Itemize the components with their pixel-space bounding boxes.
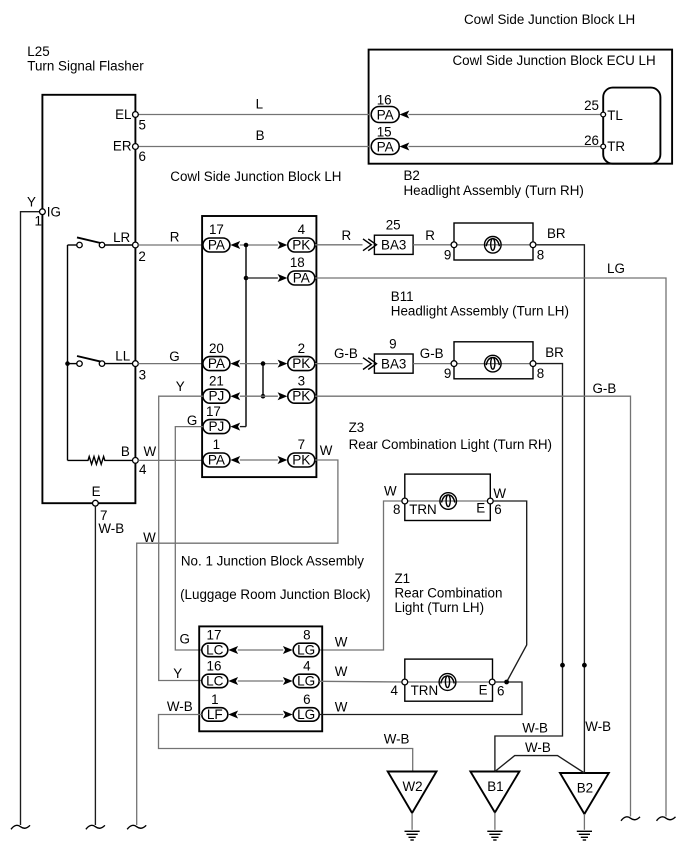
arrowhead into PK2 [278,360,288,368]
svg-text:Z1: Z1 [395,571,411,586]
svg-text:E: E [479,682,488,697]
svg-text:6: 6 [497,683,504,698]
svg-text:Y: Y [176,379,185,394]
svg-text:W: W [384,484,397,499]
arrowhead into PK3 [278,392,288,400]
arrowhead into LG8 [283,646,293,654]
svg-text:LL: LL [115,348,130,363]
wire PA17-PK4 internal [240,244,278,246]
arrowhead into PA18 [278,274,288,282]
svg-text:4: 4 [391,683,399,698]
connector PA pin 17 [203,222,230,252]
svg-text:Rear Combination: Rear Combination [395,586,503,601]
svg-text:Light (Turn LH): Light (Turn LH) [395,600,485,615]
svg-text:26: 26 [584,133,599,148]
wire G (LL to PA20) [138,349,203,364]
ground triangle B2 [560,773,609,814]
node TL pin 25 [584,98,623,123]
svg-text:4: 4 [298,222,306,237]
svg-text:B: B [121,444,130,459]
node J4 (row21 branch) [261,394,266,399]
connector LC pin 16 [202,659,228,689]
wire W (Z3 E to Z1 junction) [493,501,527,682]
connector PK pin 4 [288,222,315,252]
svg-text:W-B: W-B [98,521,124,536]
svg-text:15: 15 [377,124,392,139]
connector PK pin 7 [288,437,315,467]
svg-text:TRN: TRN [411,683,439,698]
squiggle G-B wire end [621,817,640,821]
wire R (BA3 to bulb B2) [413,228,454,245]
svg-text:B11: B11 [391,289,414,304]
svg-text:TRN: TRN [409,502,437,517]
svg-text:E: E [476,501,485,516]
svg-text:25: 25 [584,98,599,113]
node splice on BR/W-B (B2) [582,663,587,668]
wire across lamp Z3 [405,500,491,502]
svg-text:IG: IG [47,205,61,220]
svg-text:B2: B2 [404,168,420,183]
wire W (LG8 to Z3 TRN 8) [319,484,405,650]
bulb Z3 TRN [440,493,457,510]
svg-text:W: W [493,486,506,501]
svg-text:W: W [143,530,156,545]
svg-text:W-B: W-B [525,740,551,755]
svg-text:3: 3 [139,367,146,382]
svg-text:PA: PA [208,238,226,253]
svg-text:Cowl Side Junction Block LH: Cowl Side Junction Block LH [170,169,341,184]
lamp housing Z3 TRN [405,474,491,520]
node bulb B11 pin 8 [530,361,544,382]
node chain-LL junction [65,361,70,366]
wire PA20-PK2 internal [240,363,278,365]
svg-text:PA: PA [208,453,226,468]
wire LG (PA18 to off-page) [315,261,666,816]
squiggle E wire end [86,825,105,829]
svg-text:5: 5 [139,118,146,133]
No.1 junction block box [199,626,322,731]
svg-text:ER: ER [113,139,132,154]
svg-text:4: 4 [303,659,311,674]
svg-text:Headlight Assembly (Turn RH): Headlight Assembly (Turn RH) [404,183,584,198]
svg-text:18: 18 [290,255,305,270]
svg-text:PK: PK [292,453,310,468]
node EL pin 5 [115,107,146,132]
connector LC pin 17 [202,628,228,658]
bulb B11 (turn LH) [485,355,502,372]
arrowhead into PK4 [278,241,288,249]
svg-text:LC: LC [206,673,224,688]
wire TR (ECU pin 26 to PA15) [409,146,601,148]
svg-text:PA: PA [377,107,395,122]
node splice Z1 E junction [504,680,509,685]
svg-text:W: W [144,444,157,459]
arrowhead into PJ17 [230,423,240,431]
wire L (EL to PA16) [135,97,371,115]
svg-text:LF: LF [207,707,223,722]
svg-text:Y: Y [27,194,36,209]
bulb B2 (turn RH) [485,237,502,254]
wire E W-B (to off-page) [94,506,96,825]
junction block LH box [202,216,316,477]
arrowhead into PJ21 [230,392,240,400]
svg-text:B1: B1 [487,779,503,794]
wire W-B bridge (B1 to B2) [495,756,585,773]
svg-text:17: 17 [209,222,224,237]
arrowhead into PK7 [278,456,288,464]
connector PK pin 2 [288,341,315,371]
node bulb B2 pin 8 [530,242,544,262]
wire PA1-PK7 internal [240,459,278,461]
svg-text:W: W [335,664,348,679]
svg-text:25: 25 [386,218,401,233]
wire G-B (BA3 to bulb B11) [413,346,454,364]
svg-text:BA3: BA3 [381,356,406,371]
svg-text:BR: BR [545,345,564,360]
node J3 (row20 branch) [261,361,266,366]
svg-text:L: L [256,97,263,112]
ground symbol under B1 [487,813,502,841]
arrowhead into LG6 [283,711,293,719]
svg-text:B: B [256,128,265,143]
svg-text:8: 8 [393,502,400,517]
wire G-B (PK2 to BA3 B11) [315,346,363,364]
svg-text:BA3: BA3 [381,238,406,253]
connector LF pin 1 [202,692,228,722]
svg-text:B2: B2 [577,780,593,795]
svg-text:R: R [425,228,435,243]
node TR pin 26 [584,133,625,154]
wire PJ21-PK3 internal [240,395,278,397]
svg-text:TL: TL [607,108,623,123]
connector LG pin 8 [293,628,319,658]
wire G (PJ17 to LC17) [175,413,203,650]
arrowhead into LC16 [228,677,238,685]
svg-text:W-B: W-B [167,699,193,714]
node J2 (row18 branch) [244,276,249,281]
svg-text:3: 3 [298,373,305,388]
svg-text:1: 1 [35,214,42,229]
node Z1 TRN pin 4 [391,679,439,698]
svg-text:R: R [342,228,352,243]
svg-text:G-B: G-B [593,381,617,396]
ECU box: Cowl Side Junction Block ECU LH [369,50,672,164]
node Z3 TRN pin 8 [393,498,437,517]
squiggle LG wire end [657,817,676,821]
wire BR (B2 bulb to ground B2) [536,226,585,772]
svg-text:PJ: PJ [208,389,224,404]
arrowhead into PA17 [230,241,240,249]
arrowhead into LG4 [283,677,293,685]
connector arrows BA3 (B11) [363,358,377,370]
label No. 1 Junction Block Assembly [180,554,371,602]
wire W (B to PA1) [138,444,203,461]
lamp housing B2 [454,223,533,260]
label L25 Turn Signal Flasher [27,44,144,74]
wire W (LG6 loop to Z1 pin6) [319,682,522,715]
svg-text:PK: PK [292,356,310,371]
connector PJ pin 17 [203,404,230,434]
switch LR (hazard/turn contact) [68,237,133,247]
node LR pin 2 [113,230,146,264]
svg-text:R: R [170,229,180,244]
node Z3 TRN pin 6 (E) [476,486,506,517]
svg-text:W: W [335,700,348,715]
node bulb B2 pin 9 [444,242,457,262]
svg-text:W2: W2 [403,779,423,794]
lamp housing Z1 TRN [405,659,493,701]
svg-text:PA: PA [377,139,395,154]
node splice on BR/W-B (B11) [560,663,565,668]
svg-text:2: 2 [138,249,145,264]
wire TL (ECU pin 25 to PA16) [409,114,601,116]
svg-text:4: 4 [139,462,147,477]
svg-text:7: 7 [298,437,305,452]
ground triangle B1 [470,772,519,813]
arrowhead into LC17 [228,646,238,654]
wire branch down to row21 [262,364,264,397]
svg-text:8: 8 [537,366,544,381]
wire W (PK7 to off-page) [137,460,338,825]
svg-text:9: 9 [389,336,396,351]
label Z1 Rear Combination Light (Turn LH) [395,571,503,615]
connector PJ pin 21 [203,373,230,403]
svg-text:8: 8 [303,628,310,643]
wire LF1-LG6 internal [238,714,283,716]
connector PA pin 16 [371,92,399,122]
svg-text:LG: LG [297,642,315,657]
node Z1 TRN pin 6 (E) [479,679,505,698]
node LL pin 3 [115,348,146,382]
wire W-B (LF1 to ground W2) [159,715,413,773]
svg-text:PA: PA [293,271,311,286]
svg-text:W: W [320,443,333,458]
connector PA pin 1 [203,437,230,467]
node E pin 7 [92,484,125,536]
svg-text:PK: PK [292,238,310,253]
svg-text:LR: LR [113,230,130,245]
wire IG Y (to off-page) [21,212,41,825]
svg-text:Cowl Side Junction Block LH: Cowl Side Junction Block LH [464,12,635,27]
svg-text:6: 6 [303,692,310,707]
svg-text:PK: PK [292,389,310,404]
connector LG pin 6 [293,692,319,722]
svg-text:Cowl Side Junction Block ECU L: Cowl Side Junction Block ECU LH [453,53,656,68]
wire R (PK4 to BA3) [315,228,363,245]
wire branch to PA18 [246,277,278,279]
wire across lamp B2 [454,244,533,246]
wire R (LR to PA17) [138,229,203,245]
svg-text:9: 9 [444,366,451,381]
wire W (LG4 to Z1 TRN 4) [319,664,405,682]
svg-text:Headlight Assembly (Turn LH): Headlight Assembly (Turn LH) [391,304,569,319]
resistor (flasher internal) [68,457,133,465]
svg-text:E: E [92,484,101,499]
svg-text:20: 20 [209,341,224,356]
wire Y (PJ21 to LC16) [159,379,203,681]
wire across lamp Z1 [405,681,492,683]
svg-text:PJ: PJ [208,419,224,434]
arrowhead into PA1 [230,456,240,464]
svg-text:21: 21 [209,373,224,388]
svg-text:Turn Signal Flasher: Turn Signal Flasher [27,59,144,74]
ground triangle W2 [388,772,437,814]
svg-text:(Luggage Room Junction Block): (Luggage Room Junction Block) [180,587,371,602]
wire B (ER to PA15) [135,128,371,146]
svg-text:1: 1 [213,437,220,452]
connector arrows BA3 (B2) [363,239,377,251]
connector BA3 pin 25 (B2) [374,218,413,255]
svg-text:LG: LG [297,673,315,688]
svg-text:Y: Y [173,666,182,681]
arrowhead into PA20 [230,360,240,368]
flasher L25 box [42,95,135,503]
svg-text:W-B: W-B [522,720,548,735]
lamp housing B11 [454,342,533,379]
ground symbol under B2 [577,814,592,840]
squiggle IG wire end [11,825,30,829]
wire branch down to PJ17 [245,245,247,427]
connector ECU internal (rounded rect) [603,88,660,164]
wire LC17-LG8 internal [238,649,283,651]
svg-text:L25: L25 [27,44,49,59]
node bulb B11 pin 9 [444,361,457,382]
svg-text:16: 16 [377,92,392,107]
svg-text:TR: TR [607,139,625,154]
label Z3 Rear Combination Light (Turn RH) [349,420,552,452]
svg-text:W-B: W-B [585,719,611,734]
arrowhead into LF1 [228,711,238,719]
svg-text:LG: LG [297,707,315,722]
wire arrow to branch (PJ17) [240,426,246,428]
svg-text:Z3: Z3 [349,420,365,435]
wire BR (B11 bulb to ground B1) [495,345,564,772]
wire internal chain (switch commons) [67,245,69,460]
svg-text:16: 16 [207,659,222,674]
svg-text:LG: LG [607,261,625,276]
node B pin 4 [121,444,147,477]
node IG pin 1 [27,194,61,228]
node J1 (row17 branch) [244,243,249,248]
svg-text:EL: EL [115,107,131,122]
connector LG pin 4 [293,659,319,689]
svg-text:G-B: G-B [420,346,444,361]
connector PA pin 20 [203,341,230,371]
svg-text:No. 1 Junction Block Assembly: No. 1 Junction Block Assembly [181,554,364,569]
connector PA pin 15 [371,124,399,154]
svg-text:PA: PA [208,356,226,371]
connector PK pin 3 [288,373,315,403]
svg-text:G-B: G-B [334,346,358,361]
svg-text:6: 6 [139,149,146,164]
svg-text:G: G [169,349,179,364]
svg-text:6: 6 [494,502,501,517]
svg-text:BR: BR [547,226,566,241]
svg-text:G: G [180,631,190,646]
arrowhead into PA16 [400,111,410,119]
connector PA pin 18 [288,255,315,285]
wire across lamp B11 [454,363,533,365]
svg-text:W: W [335,634,348,649]
svg-text:8: 8 [537,247,544,262]
wire G-B (PK3 to off-page) [315,381,631,816]
svg-text:LC: LC [206,642,224,657]
squiggle W wire end [127,825,146,829]
arrowhead into PA15 [400,143,410,151]
svg-text:1: 1 [211,692,218,707]
ground symbol under W2 [405,813,420,840]
bulb Z1 TRN [439,674,456,691]
svg-text:G: G [187,413,197,428]
svg-text:9: 9 [444,247,451,262]
label B11 Headlight Assembly (Turn LH) [391,289,569,319]
svg-text:2: 2 [298,341,305,356]
svg-text:17: 17 [206,404,221,419]
switch LL [68,356,133,366]
svg-text:Rear Combination Light (Turn R: Rear Combination Light (Turn RH) [349,437,552,452]
connector BA3 pin 9 (B11) [374,336,413,373]
label B2 Headlight Assembly (Turn RH) [404,168,584,198]
wire LC16-LG4 internal [238,680,283,682]
svg-text:W-B: W-B [384,731,410,746]
svg-text:17: 17 [207,628,222,643]
node ER pin 6 [113,139,146,164]
